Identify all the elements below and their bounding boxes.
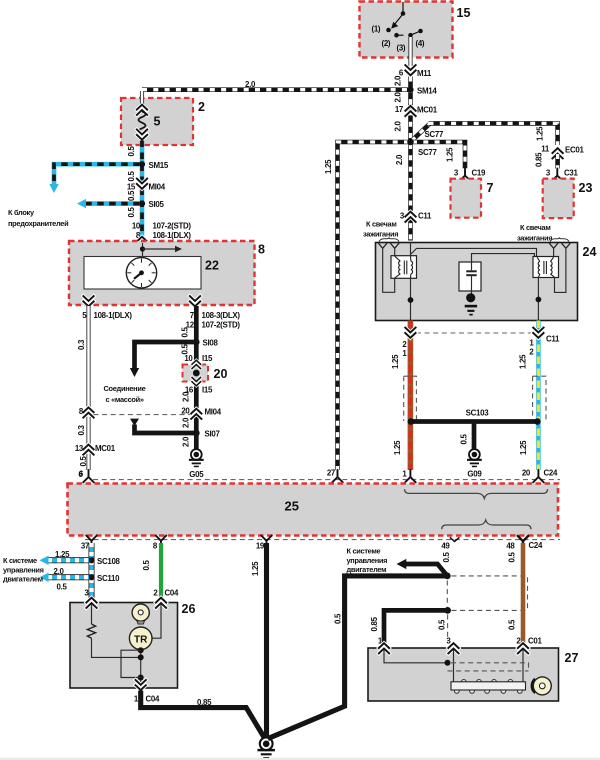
svg-text:0.5: 0.5 — [181, 327, 190, 338]
right coil secondary loop — [555, 248, 566, 292]
svg-text:107-2(STD): 107-2(STD) — [202, 321, 241, 330]
filter terminal strip — [454, 689, 459, 694]
wire black/white SC77 down to C11 — [408, 144, 413, 241]
svg-text:двигателем: двигателем — [347, 565, 387, 574]
connector I15 bottom — [192, 377, 201, 385]
svg-text:11: 11 — [541, 145, 550, 154]
svg-text:MC01: MC01 — [95, 444, 116, 453]
svg-text:0.85: 0.85 — [535, 152, 544, 167]
box 22 gauge module — [84, 257, 201, 290]
svg-text:TR: TR — [134, 634, 148, 645]
spark plug connectors left — [378, 243, 387, 248]
block 8 exit connector 7 — [190, 296, 200, 306]
svg-text:(4): (4) — [416, 39, 425, 48]
wire white into fuse — [140, 91, 144, 105]
node SC103 left — [408, 418, 415, 425]
wire black/white to EC01 connector — [429, 123, 558, 145]
connector MC01 — [405, 106, 415, 116]
svg-text:C01: C01 — [528, 637, 542, 646]
svg-text:0.5: 0.5 — [127, 171, 136, 182]
svg-text:2.0: 2.0 — [394, 92, 403, 103]
svg-text:0.5: 0.5 — [442, 552, 451, 563]
connector C11 right — [533, 328, 543, 338]
block 20 joint connector — [183, 365, 209, 382]
dashed shield box left — [404, 376, 417, 421]
svg-text:управления: управления — [347, 556, 388, 565]
svg-text:20: 20 — [214, 367, 228, 381]
connector pin 49 — [450, 537, 460, 541]
arrowhead to chassis ground — [130, 368, 139, 377]
svg-text:0.5: 0.5 — [508, 619, 517, 630]
resistor in block 26 — [91, 604, 93, 624]
wire black/white from M11 to junction SC77 — [408, 77, 413, 143]
connector EC01 — [552, 148, 562, 158]
arrow triangle on dashed link — [130, 419, 139, 426]
wire black/white SC77 left branch to block 25 pin 27 — [338, 142, 410, 470]
svg-text:1.25: 1.25 — [55, 550, 70, 559]
transistor TR — [129, 627, 152, 650]
svg-text:управления: управления — [3, 565, 44, 574]
node junction below pin 49 — [444, 573, 451, 580]
svg-text:(3): (3) — [397, 44, 406, 53]
connector fork pin 48 C24 — [518, 536, 529, 548]
connector into block 27 pin 1 — [379, 643, 389, 653]
switch contacts inside block 15 — [394, 2, 421, 35]
svg-text:SI08: SI08 — [203, 339, 219, 348]
horn symbol in block 27 — [532, 679, 535, 693]
node SI07 — [193, 430, 200, 437]
arrowhead SC110 — [40, 573, 49, 582]
svg-text:108-1(DLX): 108-1(DLX) — [153, 231, 192, 240]
ground G05 — [189, 449, 204, 467]
svg-text:2: 2 — [198, 100, 205, 114]
svg-text:8: 8 — [258, 243, 265, 257]
svg-text:I15: I15 — [202, 354, 213, 363]
connector C11 left — [405, 328, 415, 338]
block 8 instrument cluster — [69, 241, 255, 305]
svg-text:SM14: SM14 — [417, 87, 437, 96]
wire cyan/yellow from coil to block 25 pin 20 — [536, 321, 541, 471]
svg-text:К свечам: К свечам — [366, 220, 397, 229]
svg-text:0.5: 0.5 — [508, 552, 517, 563]
svg-text:1.25: 1.25 — [251, 561, 260, 576]
connector fork pin 37 — [86, 536, 97, 548]
svg-text:SI07: SI07 — [205, 430, 221, 439]
svg-text:MI04: MI04 — [205, 408, 222, 417]
wire black arrow to engine control — [406, 564, 447, 576]
wire red/brown from coil to block 25 pin 1 — [408, 321, 414, 471]
dashed link line — [94, 414, 191, 416]
wire black/white diagonal branch SC77 — [412, 124, 430, 141]
svg-text:SI05: SI05 — [149, 200, 165, 209]
connector fork pin 8 — [156, 536, 167, 548]
svg-text:25: 25 — [285, 499, 299, 514]
block 23 — [543, 179, 574, 219]
wire black/white horizontal SM14 to fuse block 2 — [142, 87, 408, 92]
svg-text:SC77: SC77 — [425, 130, 444, 139]
svg-text:27: 27 — [327, 469, 336, 478]
node and arrow inside block 8 — [142, 243, 144, 256]
wire black block 26 to ground — [141, 691, 265, 739]
svg-text:0.5: 0.5 — [127, 190, 136, 201]
node SM15 — [139, 161, 145, 167]
wire black/white SC77 to C19 — [412, 142, 465, 169]
fuse 5 connector top — [137, 105, 147, 115]
svg-text:C04: C04 — [165, 589, 179, 598]
block 8 exit connector 5 — [83, 296, 93, 306]
connector fork pin 1 — [405, 470, 416, 482]
connector MI04 cyan — [137, 179, 147, 189]
svg-text:C11: C11 — [418, 212, 432, 221]
svg-text:двигателем: двигателем — [3, 575, 43, 584]
TR output chain — [140, 649, 142, 684]
wire black/white EC01 to C31 — [555, 154, 560, 169]
connector C11 — [405, 212, 415, 222]
svg-text:SC77: SC77 — [418, 148, 437, 157]
svg-text:0.5: 0.5 — [181, 344, 190, 355]
wire C11 into coil primary — [410, 243, 412, 257]
svg-text:Соединение: Соединение — [104, 384, 146, 393]
wire black pin 19 to ground — [264, 543, 269, 738]
capacitor box — [459, 262, 481, 291]
svg-text:0.3: 0.3 — [77, 425, 86, 436]
svg-text:49: 49 — [441, 542, 450, 551]
svg-text:SC110: SC110 — [97, 574, 120, 583]
svg-text:К свечам: К свечам — [520, 223, 551, 232]
connector into block 26 pin 3 — [86, 598, 96, 608]
svg-text:0.5: 0.5 — [334, 613, 343, 624]
svg-text:C24: C24 — [529, 541, 543, 550]
svg-text:К блоку: К блоку — [8, 208, 35, 217]
svg-text:5: 5 — [154, 115, 161, 129]
ground bars in block 24 — [465, 305, 477, 308]
svg-text:24: 24 — [583, 245, 597, 259]
connector into block 27 pin 3 — [448, 643, 458, 653]
block 15 ignition switch box — [360, 2, 453, 58]
left coil windings — [395, 256, 413, 278]
primary link line to right coil — [417, 248, 537, 256]
svg-text:10: 10 — [184, 354, 193, 363]
node SC108 — [88, 557, 94, 563]
svg-text:EC01: EC01 — [565, 146, 584, 155]
block 24 ignition coil assembly — [376, 243, 578, 321]
svg-text:1.25: 1.25 — [393, 440, 402, 455]
gauge dial 22 — [126, 258, 156, 288]
connector into block 26 pin 2 — [156, 598, 166, 608]
wire black from block 8 pin 7 to ground G05 — [194, 306, 199, 449]
connector MI04 lower — [191, 409, 201, 419]
spark plug connectors right — [549, 243, 558, 248]
wire black branch SI08 to ground arrow — [135, 342, 197, 368]
spark plug brace left — [379, 238, 399, 242]
node SI08 — [193, 339, 200, 346]
svg-text:108-1(DLX): 108-1(DLX) — [94, 311, 133, 320]
svg-text:2.0: 2.0 — [394, 121, 403, 132]
svg-text:0.5: 0.5 — [438, 619, 447, 630]
svg-text:2.0: 2.0 — [182, 436, 191, 447]
svg-text:0.5: 0.5 — [127, 146, 136, 157]
wire cyan/white arrow SC108 — [48, 557, 89, 563]
svg-text:SC103: SC103 — [466, 409, 490, 418]
node SC77 junction — [407, 139, 414, 146]
wire cyan/black fuse output down to gauge block 8 — [140, 141, 145, 241]
svg-text:2.0: 2.0 — [245, 80, 256, 89]
svg-text:0.5: 0.5 — [127, 207, 136, 218]
indicator lamp in block 26 — [132, 604, 149, 621]
svg-text:0.5: 0.5 — [460, 434, 469, 445]
arrowhead to fuse block — [49, 184, 58, 193]
svg-text:2.0: 2.0 — [395, 154, 404, 165]
svg-text:17: 17 — [395, 105, 404, 114]
svg-text:C04: C04 — [146, 695, 160, 704]
svg-text:0.5: 0.5 — [57, 583, 68, 592]
svg-text:2.0: 2.0 — [54, 567, 65, 576]
wire pin2 to TR — [153, 604, 162, 638]
capacitor C plates — [466, 270, 476, 272]
svg-text:SC108: SC108 — [97, 557, 121, 566]
ground G09 — [467, 449, 482, 467]
dashed connector boundary below block 25 — [85, 539, 560, 541]
svg-text:C11: C11 — [546, 335, 560, 344]
svg-text:48: 48 — [506, 542, 515, 551]
svg-text:7: 7 — [487, 181, 494, 195]
main chassis ground — [257, 737, 274, 758]
wire white from block 8 pin 5 down to block 25 — [86, 306, 90, 470]
wire black SC103 to ground G09 — [472, 422, 477, 450]
connector fork pin 6 — [83, 470, 94, 482]
wire black SC103 bus — [410, 419, 538, 424]
connector out of block 26 pin 1 C04 — [136, 680, 146, 690]
wire cyan/white arrow SC110 — [48, 574, 89, 580]
connector fork pin 19 — [261, 536, 272, 548]
right ignition coil box — [533, 257, 559, 278]
svg-text:15: 15 — [457, 6, 471, 20]
block 27 noise filter — [368, 648, 559, 701]
left ignition coil box — [391, 256, 417, 279]
svg-text:зажигания: зажигания — [517, 234, 552, 243]
capacitor bottom lead — [471, 276, 473, 294]
dashed connector boundary above block 25 — [93, 479, 560, 481]
svg-text:15: 15 — [127, 183, 136, 192]
left coil secondary loop — [383, 248, 395, 292]
svg-text:20: 20 — [522, 469, 531, 478]
svg-text:2.0: 2.0 — [394, 75, 403, 86]
node SC110 — [88, 574, 94, 580]
junction dot below left coil — [408, 297, 414, 303]
svg-text:0.3: 0.3 — [77, 339, 86, 350]
wire green pin 8 down to block 26 — [159, 543, 163, 598]
connector into block 8 — [137, 237, 147, 247]
svg-text:107-2(STD): 107-2(STD) — [153, 222, 192, 231]
arrowhead SC108 — [40, 556, 49, 565]
wire cyan/black branch from SI05 left — [85, 201, 140, 206]
fuse 5 connector bottom — [137, 130, 147, 140]
block 2 fuse box — [121, 98, 193, 145]
connector MC01 lower — [83, 445, 93, 455]
block 25 engine control module — [68, 484, 559, 536]
svg-text:27: 27 — [565, 651, 579, 665]
svg-text:1.25: 1.25 — [446, 147, 455, 162]
arrowhead to fuse block left — [77, 199, 86, 208]
node SI05 — [139, 201, 145, 207]
svg-text:22: 22 — [205, 259, 219, 273]
svg-text:13: 13 — [75, 444, 84, 453]
svg-text:2.0: 2.0 — [182, 417, 191, 428]
connector I15 top — [192, 360, 201, 368]
svg-text:1.25: 1.25 — [519, 354, 528, 369]
connector into block 27 pin 2 C01 — [518, 643, 528, 653]
svg-text:10: 10 — [132, 222, 141, 231]
spark plug brace right — [550, 238, 569, 242]
dashed connector line C11 row — [416, 332, 533, 334]
svg-text:1.25: 1.25 — [324, 159, 333, 174]
capacitor top lead to link line — [472, 254, 535, 271]
node SC103 right — [534, 418, 541, 425]
svg-text:M11: M11 — [417, 69, 432, 78]
wiring inside block 27 — [384, 650, 445, 663]
svg-text:108-3(DLX): 108-3(DLX) — [202, 311, 241, 320]
connector C31 fork — [552, 169, 563, 181]
svg-text:G09: G09 — [467, 470, 482, 479]
dashed lines junction box — [447, 576, 527, 609]
svg-text:26: 26 — [182, 602, 196, 616]
fuse 5 element — [139, 112, 146, 134]
svg-text:C24: C24 — [544, 469, 558, 478]
svg-text:зажигания: зажигания — [363, 230, 398, 239]
arrowhead to engine control — [397, 559, 407, 569]
svg-text:C31: C31 — [564, 169, 578, 178]
connector fork pin 27 — [332, 470, 343, 482]
svg-text:1.25: 1.25 — [536, 126, 545, 141]
svg-text:0.5: 0.5 — [79, 456, 88, 467]
node junction 2 — [444, 607, 451, 614]
svg-text:1.25: 1.25 — [391, 354, 400, 369]
connector 8 on white wire — [83, 407, 93, 417]
dashed shield box right — [533, 376, 546, 421]
svg-text:с «массой»: с «массой» — [106, 395, 144, 404]
svg-text:К системе: К системе — [347, 547, 381, 556]
svg-text:(2): (2) — [382, 39, 391, 48]
wire cyan/black branch from SM15 to fuse block — [54, 164, 140, 184]
wire black junction to ground via left leg — [268, 576, 448, 739]
bypass loop in block 26 — [121, 650, 141, 677]
svg-text:1.25: 1.25 — [519, 440, 528, 455]
node SM14 — [407, 87, 413, 93]
block 7 — [451, 179, 482, 218]
svg-text:C19: C19 — [472, 169, 486, 178]
svg-text:предохранителей: предохранителей — [8, 219, 69, 228]
svg-text:I15: I15 — [202, 386, 213, 395]
svg-text:0.85: 0.85 — [197, 698, 212, 707]
wire black from arrow to SI07 — [135, 425, 197, 434]
wire black junction 2 to block 27 pin 1 — [384, 610, 448, 644]
dashed path in block 27 — [448, 663, 529, 671]
svg-text:0.5: 0.5 — [142, 560, 151, 571]
connector M11 — [405, 65, 415, 75]
page bottom strip — [0, 758, 600, 760]
connector fork pin 20 C24 — [533, 470, 544, 482]
svg-text:MI04: MI04 — [149, 183, 166, 192]
block 26 ignition failure sensor — [70, 603, 178, 689]
svg-text:(1): (1) — [372, 25, 381, 34]
dashed from junction 2 to pin 3 — [447, 615, 449, 642]
svg-text:23: 23 — [579, 181, 593, 195]
wire cyan/white pin 37 down to block 26 — [89, 543, 95, 598]
brace top C24 group — [405, 489, 548, 498]
right coil windings — [537, 257, 555, 277]
svg-text:К системе: К системе — [3, 556, 37, 565]
wire brown pin 48 to block 27 pin 2 — [521, 543, 526, 644]
wire white from switch terminal 3 down to M11 — [408, 37, 412, 69]
svg-text:MC01: MC01 — [417, 106, 438, 115]
svg-text:19: 19 — [256, 542, 265, 551]
svg-text:0.85: 0.85 — [370, 616, 379, 631]
ground node dot in block 24 — [466, 293, 475, 302]
connector C19 fork — [460, 169, 471, 181]
node in block 20 — [193, 370, 200, 377]
svg-text:SM15: SM15 — [149, 161, 169, 170]
svg-text:G05: G05 — [189, 470, 204, 479]
svg-text:2.0: 2.0 — [182, 391, 191, 402]
junction dot below right coil — [536, 297, 542, 303]
brace bottom C24 group — [442, 520, 531, 529]
left coil output to block bottom — [410, 278, 412, 320]
right coil output to block bottom — [537, 278, 539, 321]
